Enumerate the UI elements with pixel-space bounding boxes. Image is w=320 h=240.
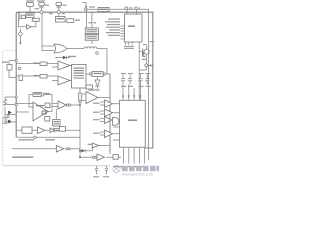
- svg-text:www.elecfans.com: www.elecfans.com: [122, 173, 153, 177]
